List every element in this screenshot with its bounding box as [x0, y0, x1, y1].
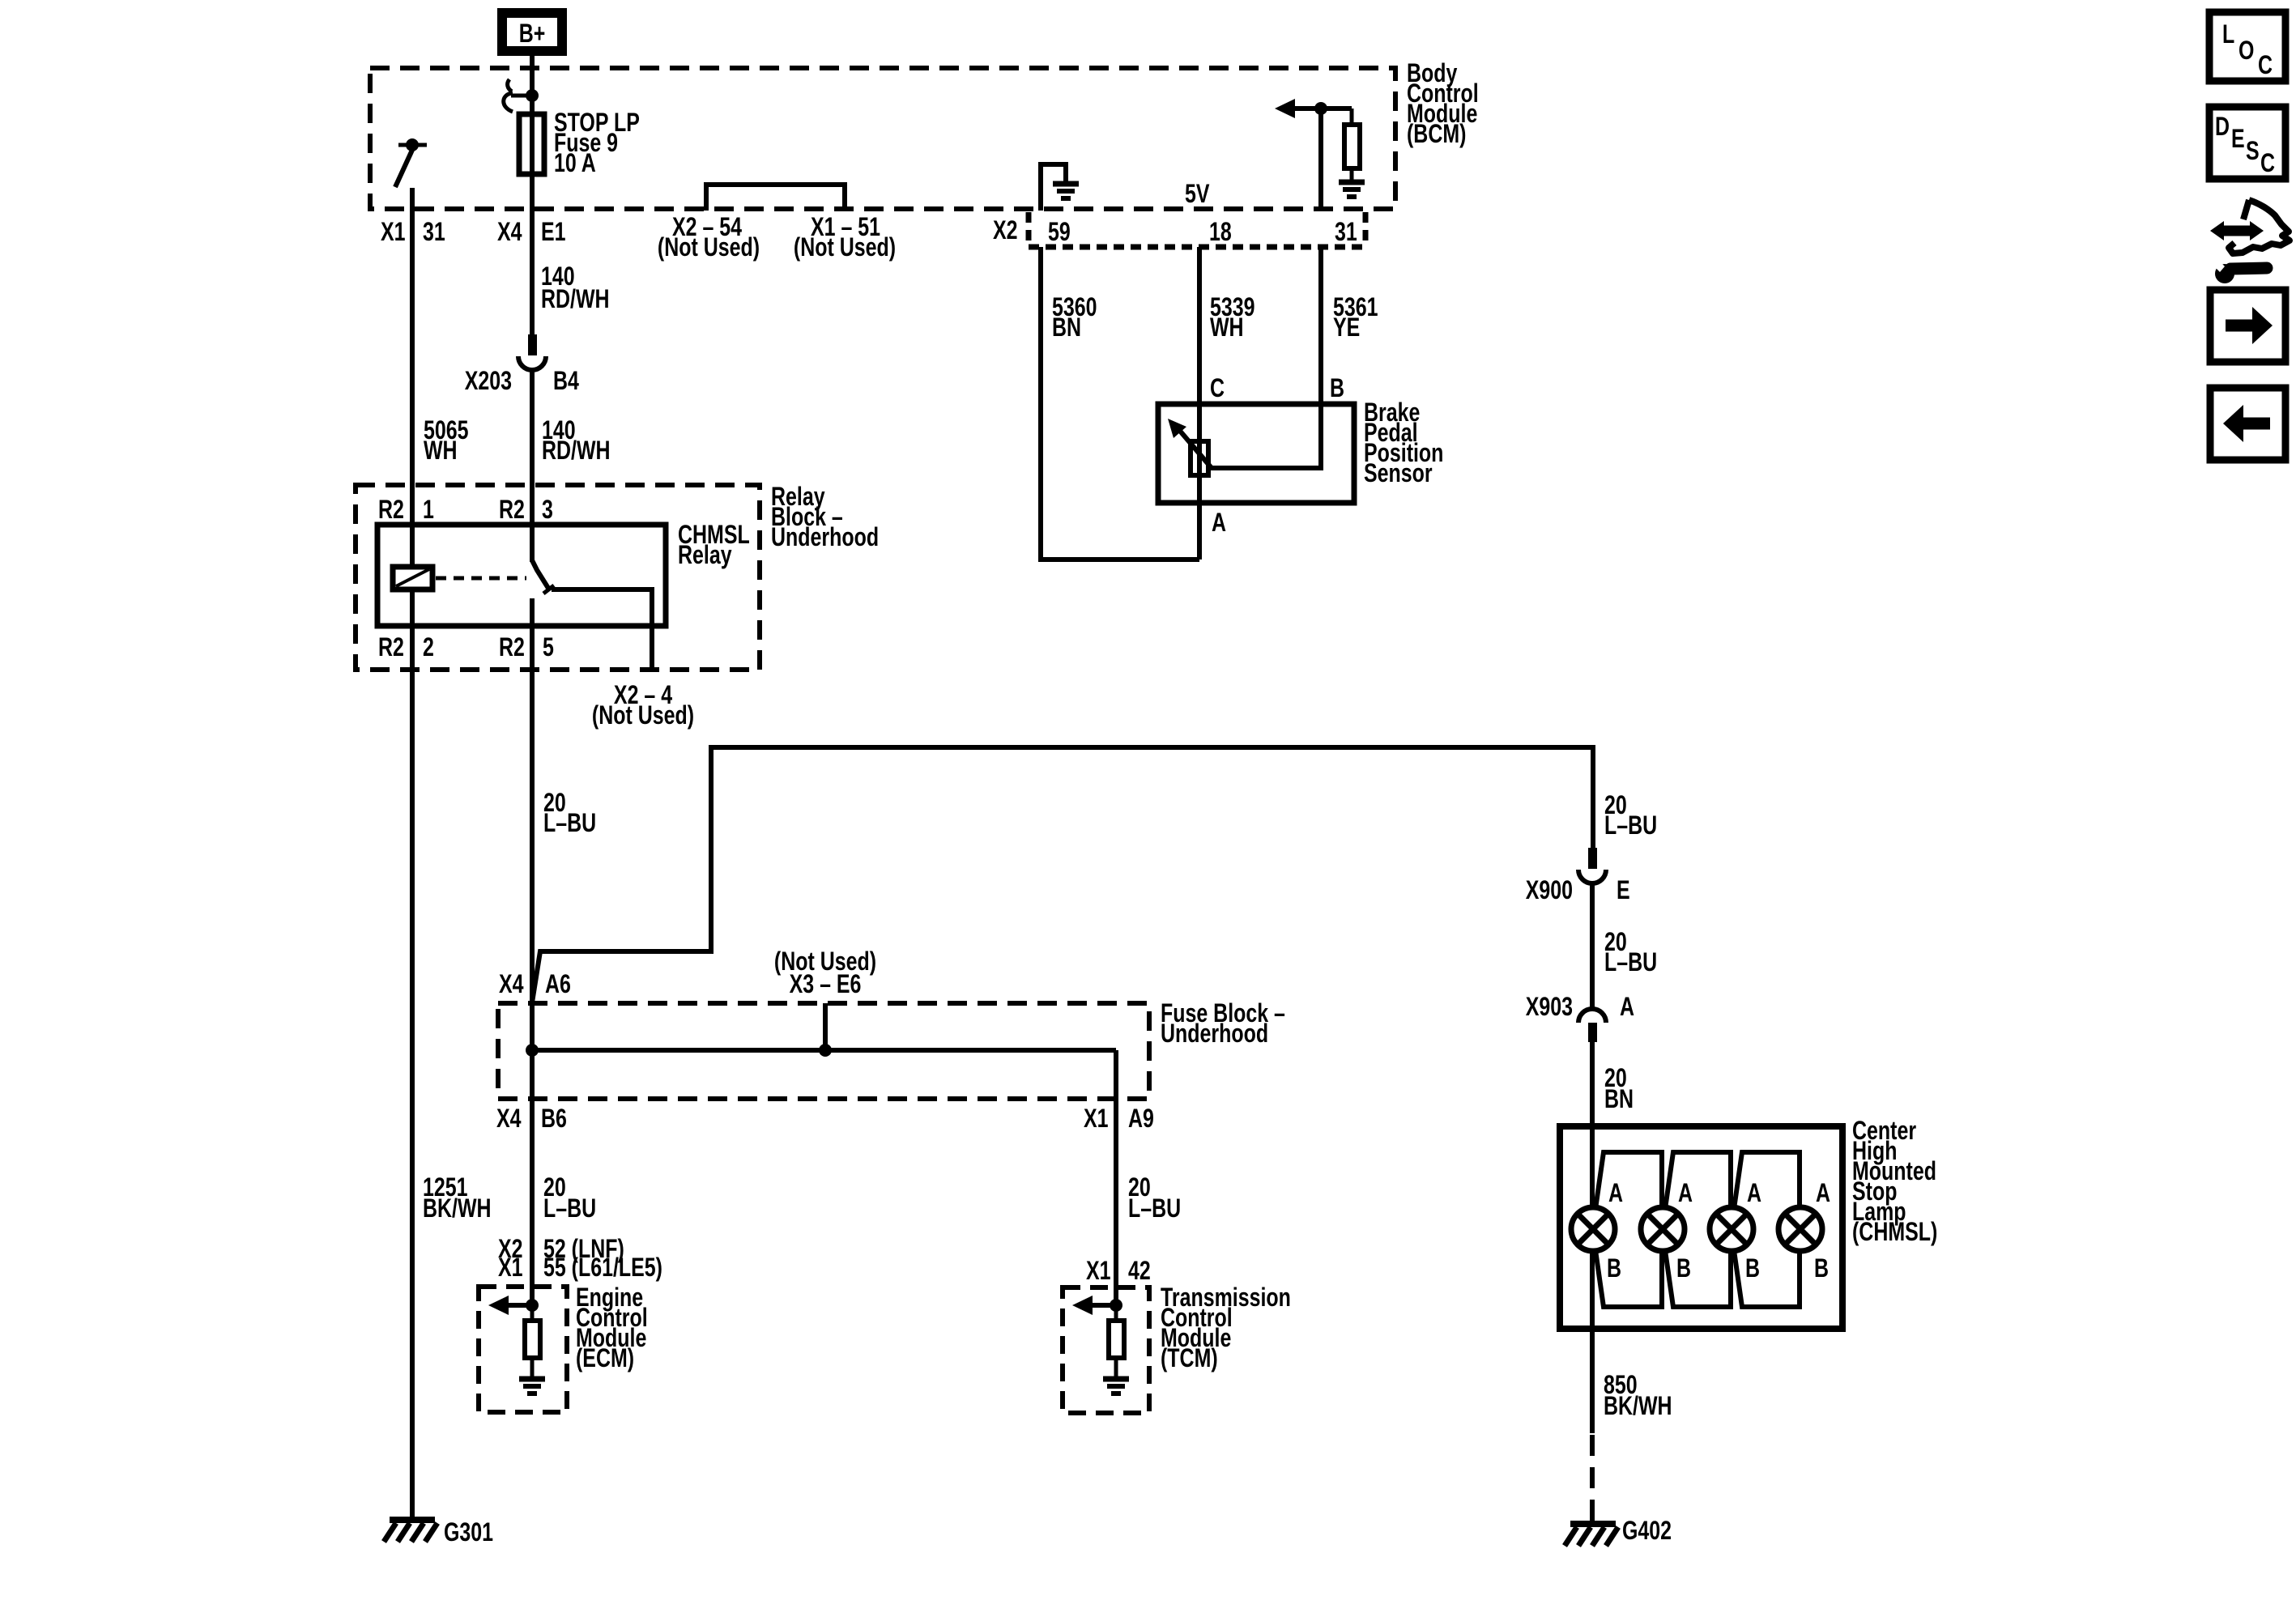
pin labels A B lamp4 — [1814, 1179, 1830, 1283]
svg-text:(Not Used): (Not Used) — [658, 233, 760, 262]
wire label 1251 BK/WH — [423, 1173, 492, 1223]
junction dot at A6 riser — [526, 1044, 539, 1057]
svg-text:(Not Used): (Not Used) — [794, 233, 896, 262]
dashed continuation of ground wire — [1590, 1435, 1595, 1521]
svg-text:1: 1 — [423, 496, 434, 525]
BCM X2 connector (dashed) — [1029, 212, 1365, 247]
BCM pull-up resistor — [1344, 109, 1360, 181]
wire label 5339 WH — [1210, 293, 1255, 343]
svg-text:3: 3 — [542, 496, 553, 525]
ECM outline (dashed) — [479, 1287, 567, 1412]
svg-text:(CHMSL): (CHMSL) — [1852, 1218, 1937, 1247]
contact wire to X2-4 — [552, 589, 652, 670]
relay block name label — [771, 483, 879, 552]
svg-text:B: B — [1607, 1254, 1621, 1283]
connector labels X1 31 — [381, 218, 445, 247]
svg-text:(Not Used): (Not Used) — [592, 701, 694, 730]
fuse label — [554, 109, 640, 178]
svg-text:Sensor: Sensor — [1364, 459, 1433, 488]
BCM internal ground at pin 59 — [1041, 164, 1079, 211]
svg-text:L–BU: L–BU — [1604, 811, 1657, 840]
svg-text:B: B — [1330, 374, 1344, 403]
Relay Block - Underhood outline (dashed) — [356, 485, 760, 670]
G402 chassis ground — [1565, 1524, 1618, 1546]
lamp chain bottom rail 1 — [1595, 1250, 1662, 1307]
wire label 5361 YE — [1333, 293, 1378, 343]
lamp chain top rail 3 — [1734, 1152, 1800, 1209]
wire 5339 WH: X2-18 down through potentiometer (pin C to pin A) — [1197, 247, 1202, 560]
relay body box — [377, 525, 666, 626]
junction dot pin 31 node — [1314, 102, 1327, 115]
lamp bulb 3 — [1710, 1207, 1753, 1251]
wire label 20 L-BU (mid right) — [1604, 928, 1657, 977]
wire between X900 and X903 (20 L-BU) — [1590, 883, 1595, 1009]
junction dot at B+ feed — [526, 89, 539, 102]
wire: relay pin 5 output 20 L-BU down to ECM — [530, 598, 535, 1305]
BCM name label — [1407, 59, 1479, 149]
wire label 20 L-BU (top right) — [1604, 791, 1657, 840]
CHMSL Relay label — [678, 521, 750, 570]
label X1-51 (Not Used) — [794, 213, 896, 262]
TCM name label — [1161, 1283, 1291, 1373]
svg-text:X903: X903 — [1526, 993, 1573, 1022]
lamp bulb 2 — [1641, 1207, 1685, 1251]
label X2-4 (Not Used) — [592, 681, 694, 730]
fuse F9 STOP LP 10 A — [519, 114, 544, 174]
label X2-54 (Not Used) — [658, 213, 760, 262]
svg-text:BN: BN — [1052, 313, 1081, 343]
svg-text:2: 2 — [423, 633, 434, 662]
svg-text:L: L — [2222, 20, 2234, 49]
svg-text:(BCM): (BCM) — [1407, 120, 1466, 149]
ECM internal signal arrow — [504, 1303, 532, 1308]
svg-text:31: 31 — [1335, 218, 1357, 247]
svg-text:B6: B6 — [541, 1104, 567, 1134]
relay coil — [393, 567, 432, 589]
svg-text:55 (L61/LE5): 55 (L61/LE5) — [543, 1253, 662, 1283]
svg-text:L–BU: L–BU — [543, 1194, 596, 1223]
Brake Pedal Position Sensor box — [1158, 404, 1354, 503]
pin labels A B lamp3 — [1745, 1179, 1761, 1283]
svg-text:B+: B+ — [519, 19, 546, 49]
B+ battery terminal box — [497, 8, 567, 56]
lamp bulb 4 — [1778, 1207, 1822, 1251]
fuse block name label — [1161, 999, 1285, 1049]
svg-text:B: B — [1745, 1254, 1760, 1283]
svg-text:5V: 5V — [1185, 180, 1210, 209]
svg-text:Relay: Relay — [678, 541, 732, 570]
wire 5361 YE: X2-31 down to wiper — [1210, 247, 1321, 468]
svg-text:WH: WH — [424, 436, 458, 466]
in-line connector X203 B4 — [518, 334, 546, 370]
TCM pin labels X1 42 — [1086, 1257, 1151, 1286]
svg-text:X1: X1 — [498, 1253, 523, 1283]
svg-text:X4: X4 — [497, 218, 522, 247]
splice hook horizontal lead — [511, 94, 532, 98]
lamp bulb 1 — [1571, 1207, 1615, 1251]
coil-to-arm dashed link — [436, 577, 526, 581]
lamp chain bottom rail 3 — [1734, 1250, 1800, 1307]
vehicle service icon: double arrow — [2210, 221, 2264, 240]
svg-text:G402: G402 — [1622, 1517, 1672, 1546]
svg-text:A: A — [1747, 1179, 1761, 1208]
connector labels X4 A6 — [499, 970, 571, 999]
wire: fuse block to TCM (20 L-BU) — [1114, 1050, 1118, 1305]
stop lamp switch (inside BCM) — [395, 138, 427, 187]
TCM internal signal arrow — [1088, 1303, 1116, 1308]
junction dot at X3-E6 stub — [819, 1044, 832, 1057]
svg-text:S: S — [2246, 137, 2260, 166]
svg-text:Underhood: Underhood — [771, 523, 879, 552]
svg-text:G301: G301 — [444, 1518, 493, 1547]
svg-text:B4: B4 — [553, 367, 579, 396]
wire label 5065 WH — [424, 416, 469, 466]
pin labels R2 2 / R2 5 — [378, 633, 554, 662]
pin labels R2 1 / R2 3 — [378, 496, 553, 525]
svg-text:RD/WH: RD/WH — [541, 285, 610, 314]
label (Not Used) X3-E6 — [774, 947, 876, 999]
X3-E6 stub — [823, 1003, 828, 1050]
svg-text:E1: E1 — [541, 218, 566, 247]
back navigation box (left arrow) — [2210, 388, 2285, 460]
wire label 20 L-BU (ECM drop) — [543, 1173, 596, 1223]
svg-text:BN: BN — [1604, 1085, 1634, 1114]
svg-text:X4: X4 — [496, 1104, 522, 1134]
svg-text:X1: X1 — [381, 218, 406, 247]
svg-text:BK/WH: BK/WH — [1604, 1392, 1672, 1421]
svg-text:Underhood: Underhood — [1161, 1019, 1268, 1049]
in-line connector X900 E — [1578, 848, 1606, 883]
forward navigation box (right arrow) — [2210, 290, 2285, 362]
svg-text:B: B — [1676, 1254, 1691, 1283]
not-used jumper X2-54 to X1-51 inside BCM — [706, 185, 845, 211]
wire label 140 RD/WH (upper) — [541, 262, 610, 314]
svg-text:L–BU: L–BU — [1604, 948, 1657, 977]
signal arrow (to stop lamps logic) — [1275, 99, 1295, 118]
svg-text:X1: X1 — [1084, 1104, 1109, 1134]
svg-text:A: A — [1608, 1179, 1623, 1208]
svg-text:A: A — [1212, 509, 1226, 538]
svg-text:31: 31 — [423, 218, 445, 247]
wire label 20 BN — [1604, 1064, 1634, 1114]
ECM input resistor — [530, 1305, 535, 1321]
connector labels X900 E — [1526, 876, 1630, 905]
wire: X203 to relay pin 3 — [530, 368, 535, 562]
svg-text:D: D — [2215, 113, 2230, 142]
DESC navigation box — [2209, 107, 2285, 179]
wire label 20 L-BU (left) — [543, 789, 596, 838]
svg-text:R2: R2 — [378, 633, 404, 662]
branch wire to CHMSL feed — [532, 747, 1593, 1002]
wire label 140 RD/WH (lower) — [542, 416, 611, 466]
connector labels X903 A — [1526, 993, 1634, 1022]
connector labels X4 E1 — [497, 218, 566, 247]
lamp chain top rail 1 — [1595, 1152, 1662, 1209]
svg-text:C: C — [2258, 51, 2273, 80]
wire label 5360 BN — [1052, 293, 1097, 343]
wire: lamp return 850 BK/WH — [1590, 1251, 1595, 1433]
Fuse Block - Underhood outline (dashed) — [498, 1003, 1149, 1099]
BCM internal node at pin 31: wire up — [1318, 109, 1323, 209]
svg-text:A: A — [1620, 993, 1634, 1022]
svg-text:5: 5 — [543, 633, 554, 662]
lamp chain bottom rail 2 — [1665, 1250, 1731, 1307]
CHMSL name label — [1852, 1117, 1937, 1247]
svg-text:X900: X900 — [1526, 876, 1573, 905]
svg-text:C: C — [2260, 149, 2275, 178]
TCM outline (dashed) — [1063, 1287, 1149, 1413]
BCM outline (dashed box) — [370, 68, 1395, 209]
wire: circuit 5065 WH from BCM X1-31 down to G301 — [410, 188, 415, 1517]
svg-text:X4: X4 — [499, 970, 524, 999]
svg-text:L–BU: L–BU — [1128, 1194, 1181, 1223]
internal bus wire in fuse block — [532, 1048, 1116, 1053]
svg-text:X3 – E6: X3 – E6 — [790, 970, 862, 999]
svg-text:E: E — [1617, 876, 1630, 905]
wire: B+ feed down through fuse to X203 (140 RD/WH) — [530, 56, 535, 334]
wire 5360 BN: X2-59 down and across to sensor pin A — [1041, 247, 1199, 560]
ECM pin labels X2 52 (LNF) / X1 55 (L61/LE5) — [498, 1235, 662, 1283]
svg-text:18: 18 — [1209, 218, 1232, 247]
connector labels X1 A9 — [1084, 1104, 1154, 1134]
LOC navigation box — [2209, 12, 2285, 81]
ECM name label — [576, 1283, 648, 1373]
svg-text:C: C — [1210, 374, 1225, 403]
ECM internal ground — [519, 1358, 545, 1394]
relay switch arm — [532, 560, 549, 589]
svg-text:R2: R2 — [378, 496, 404, 525]
svg-text:R2: R2 — [499, 496, 525, 525]
svg-text:(ECM): (ECM) — [576, 1344, 634, 1373]
svg-text:42: 42 — [1128, 1257, 1151, 1286]
junction dot TCM input — [1110, 1299, 1122, 1312]
potentiometer element — [1191, 441, 1208, 475]
sensor name label — [1364, 398, 1443, 488]
svg-text:L–BU: L–BU — [543, 809, 596, 838]
svg-text:X1: X1 — [1086, 1257, 1111, 1286]
svg-text:R2: R2 — [499, 633, 525, 662]
wiper arrow — [1179, 430, 1212, 468]
svg-text:YE: YE — [1333, 313, 1360, 343]
svg-text:A: A — [1816, 1179, 1830, 1208]
wire label 850 BK/WH — [1604, 1371, 1672, 1421]
contact tick — [543, 585, 554, 594]
vehicle service icon: wrench — [2211, 258, 2267, 283]
svg-text:E: E — [2231, 125, 2245, 154]
svg-text:59: 59 — [1048, 218, 1071, 247]
wire: X903 to CHMSL (20 BN) — [1590, 1042, 1595, 1209]
CHMSL housing box — [1560, 1126, 1842, 1329]
pin labels A B lamp1 — [1607, 1179, 1623, 1283]
connector labels X203 B4 — [465, 367, 579, 396]
G301 chassis ground — [384, 1520, 437, 1542]
svg-text:RD/WH: RD/WH — [542, 436, 611, 466]
BCM internal ground at pin 31 — [1339, 182, 1365, 197]
in-line connector X903 A — [1578, 1009, 1606, 1042]
splice hook symbol at battery feed — [508, 79, 512, 91]
svg-text:X2: X2 — [993, 216, 1018, 245]
svg-text:A9: A9 — [1128, 1104, 1154, 1134]
svg-text:B: B — [1814, 1254, 1829, 1283]
wire label 20 L-BU (TCM drop) — [1128, 1173, 1181, 1223]
svg-text:WH: WH — [1210, 313, 1244, 343]
svg-text:X203: X203 — [465, 367, 512, 396]
connector labels X4 B6 — [496, 1104, 567, 1134]
lamp chain top rail 2 — [1665, 1152, 1731, 1209]
TCM internal ground — [1103, 1358, 1129, 1394]
svg-text:BK/WH: BK/WH — [423, 1194, 492, 1223]
svg-text:10 A: 10 A — [554, 149, 596, 178]
junction dot ECM input — [526, 1299, 539, 1312]
svg-text:A: A — [1678, 1179, 1693, 1208]
TCM input resistor — [1114, 1305, 1118, 1321]
svg-text:A6: A6 — [545, 970, 571, 999]
vehicle service icon: body contour — [2229, 200, 2290, 253]
pin labels A B lamp2 — [1676, 1179, 1693, 1283]
svg-text:O: O — [2238, 36, 2254, 66]
svg-text:(TCM): (TCM) — [1161, 1344, 1218, 1373]
internal horizontal with arrow — [1293, 106, 1352, 111]
